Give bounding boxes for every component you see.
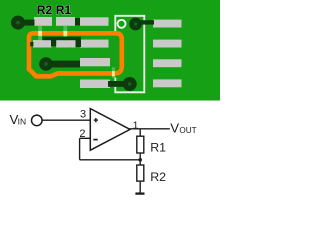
svg-text:1: 1 (133, 119, 139, 131)
svg-text:R1: R1 (56, 3, 72, 17)
svg-text:V: V (170, 120, 179, 135)
svg-text:3: 3 (80, 109, 86, 121)
svg-text:IN: IN (18, 117, 27, 127)
svg-text:2: 2 (79, 128, 85, 140)
svg-text:R2: R2 (37, 3, 53, 17)
svg-text:R2: R2 (150, 170, 166, 184)
svg-text:R1: R1 (150, 141, 166, 155)
svg-text:OUT: OUT (179, 126, 196, 135)
